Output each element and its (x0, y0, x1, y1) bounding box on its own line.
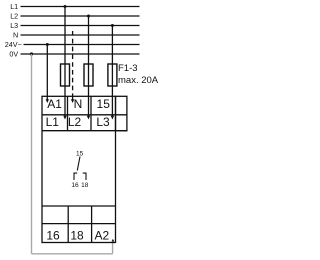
svg-text:0V: 0V (9, 50, 18, 59)
svg-text:L2: L2 (10, 12, 18, 21)
relay body outline (42, 96, 116, 242)
junction on L1 (64, 5, 67, 8)
svg-text:18: 18 (70, 229, 84, 243)
wire F2 to terminal L2 (88, 86, 90, 116)
svg-text:L3: L3 (96, 115, 110, 129)
relay top-right terminal column (116, 96, 127, 130)
arrow into terminal A2 (112, 239, 115, 242)
svg-text:N: N (74, 97, 83, 111)
wire L1 bus (21, 6, 140, 8)
arrow into terminal A1 (46, 99, 49, 103)
svg-text:15: 15 (76, 151, 84, 158)
wire L1 drop to fuse F1 (64, 7, 66, 65)
arrow into terminal L2 (87, 116, 90, 120)
wire grey bottom run (32, 253, 113, 255)
fixed contact 18 (83, 173, 86, 180)
svg-text:L3: L3 (10, 21, 18, 30)
fuse F2 (84, 64, 93, 86)
junction on 24V~ (46, 43, 49, 46)
divider A1|N and L1|L2 (67, 96, 69, 130)
junction on L2 (87, 15, 90, 18)
svg-text:max. 20A: max. 20A (118, 75, 159, 86)
dashed wire N drop (72, 31, 74, 97)
fuse F3 (108, 64, 117, 86)
fuse F1 (61, 64, 70, 86)
wire L3 bus (21, 25, 140, 27)
svg-text:16: 16 (46, 229, 60, 243)
wire L2 drop to fuse F2 (88, 16, 90, 64)
interior bottom divider (42, 205, 116, 207)
svg-text:N: N (13, 31, 18, 40)
svg-text:24V~: 24V~ (5, 40, 22, 49)
svg-text:16: 16 (71, 182, 79, 189)
junction on L3 (111, 24, 114, 27)
wire 0V bus (21, 53, 140, 55)
contact lever (common 15) (77, 157, 80, 171)
svg-text:L1: L1 (10, 2, 18, 11)
divider N|15 and L2|L3 (90, 96, 92, 130)
wire grey riser to A2 (112, 242, 114, 254)
bottom terminal row divider (42, 223, 116, 225)
divider 18|A2 (91, 206, 93, 243)
wire L2 bus (21, 15, 140, 17)
wire 24V~ bus (24, 44, 140, 46)
wire L3 drop to fuse F3 (111, 26, 113, 65)
divider 16|18 (67, 206, 69, 243)
wire F1 to terminal L1 (64, 86, 66, 116)
svg-text:L2: L2 (68, 115, 82, 129)
arrow into terminal L3 (111, 116, 114, 120)
arrow into terminal L1 (63, 116, 66, 120)
terminal rows bottom edge (42, 130, 127, 132)
wire 24V~ drop to A1 (46, 45, 48, 100)
wire F3 to terminal L3 (111, 86, 113, 116)
terminal row divider (A1/L1) (42, 114, 127, 116)
svg-text:F1-3: F1-3 (118, 63, 138, 74)
wire 0V (grey) drop (31, 54, 33, 254)
fixed contact 16 (74, 173, 77, 180)
svg-text:18: 18 (81, 182, 89, 189)
junction on 0V (30, 52, 33, 55)
svg-text:A1: A1 (47, 97, 62, 111)
svg-text:L1: L1 (46, 115, 60, 129)
arrow into terminal N (71, 99, 74, 103)
wire N bus (21, 34, 140, 36)
svg-text:A2: A2 (94, 229, 109, 243)
svg-text:15: 15 (97, 97, 111, 111)
